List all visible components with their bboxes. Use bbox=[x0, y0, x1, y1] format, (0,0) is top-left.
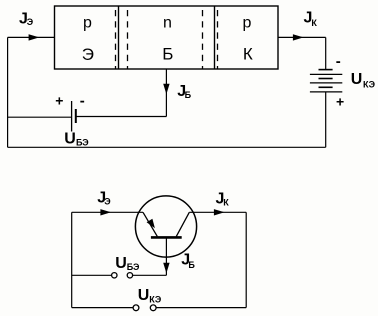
wire: base lead down bbox=[165, 238, 167, 275]
svg-text:БЭ: БЭ bbox=[76, 138, 89, 148]
svg-text:Б: Б bbox=[162, 45, 173, 64]
svg-text:Э: Э bbox=[27, 17, 34, 27]
svg-text:К: К bbox=[311, 18, 317, 28]
transistor Q1 symbol circle bbox=[135, 196, 196, 257]
wire: base to switch U_БЭ bbox=[133, 274, 167, 276]
wire: left rail to battery U_БЭ bbox=[8, 116, 72, 118]
wire: switch U_КЭ to right rail bbox=[156, 307, 246, 309]
arrow J_Э (bottom) bbox=[100, 209, 111, 215]
wire: left rail to switch U_БЭ bbox=[72, 274, 112, 276]
wire: left vertical rail (bottom diagram) bbox=[71, 212, 73, 307]
wire: base to battery U_БЭ bbox=[76, 116, 167, 118]
svg-text:Б: Б bbox=[185, 90, 192, 100]
junction J2 boundary (base-collector) bbox=[214, 6, 216, 69]
svg-text:+: + bbox=[336, 93, 344, 109]
wire: left vertical rail bbox=[7, 37, 9, 147]
wire: collector output horizontal bbox=[278, 36, 326, 38]
svg-text:Э: Э bbox=[82, 45, 94, 64]
wire: emitter input (bottom diagram) bbox=[72, 211, 143, 213]
svg-text:К: К bbox=[223, 197, 229, 207]
arrow J_Б (bottom) bbox=[163, 263, 169, 274]
svg-text:n: n bbox=[163, 14, 172, 31]
arrow J_К (bottom) bbox=[214, 209, 225, 215]
svg-text:Э: Э bbox=[104, 196, 111, 206]
svg-text:К: К bbox=[243, 45, 253, 64]
wire: bottom rail bbox=[8, 146, 326, 148]
transistor structure box Q1 (p-n-p regions) bbox=[55, 6, 279, 69]
svg-text:-: - bbox=[80, 93, 85, 110]
depletion edge dashed left of J2 bbox=[202, 10, 204, 69]
svg-text:-: - bbox=[336, 53, 341, 70]
switch terminal circle (U_КЭ right) bbox=[150, 305, 156, 311]
arrow J_Э current direction bbox=[29, 34, 40, 40]
emitter lead diagonal with arrow bbox=[143, 212, 157, 236]
arrow J_К current direction bbox=[293, 34, 304, 40]
switch terminal circle (U_БЭ left) bbox=[112, 273, 117, 278]
wire: collector output (bottom diagram) bbox=[189, 211, 246, 213]
depletion edge dashed right of J1 bbox=[127, 10, 129, 69]
collector lead diagonal bbox=[176, 212, 189, 236]
svg-text:U: U bbox=[115, 255, 127, 272]
arrow J_Б current direction bbox=[163, 84, 169, 95]
depletion edge dashed left of J1 bbox=[115, 10, 117, 69]
wire: emitter input horizontal bbox=[8, 36, 55, 38]
wire: battery U_КЭ to bottom rail bbox=[325, 92, 327, 147]
wire: left rail to switch U_КЭ bbox=[72, 307, 133, 309]
svg-text:КЭ: КЭ bbox=[149, 294, 162, 304]
wire: collector to battery bbox=[325, 37, 327, 69]
svg-text:Б: Б bbox=[188, 260, 195, 270]
svg-text:U: U bbox=[351, 71, 363, 88]
svg-text:U: U bbox=[64, 130, 76, 147]
battery U_БЭ bbox=[72, 101, 76, 132]
wire: right vertical rail (bottom diagram) bbox=[245, 212, 247, 307]
svg-text:БЭ: БЭ bbox=[127, 262, 140, 272]
junction J1 boundary (emitter-base) bbox=[118, 6, 120, 69]
wire: base lead vertical bbox=[165, 69, 167, 117]
svg-text:p: p bbox=[83, 15, 92, 32]
switch terminal circle (U_КЭ left) bbox=[133, 305, 139, 311]
svg-text:+: + bbox=[55, 92, 63, 108]
svg-text:p: p bbox=[243, 15, 252, 32]
svg-text:U: U bbox=[138, 287, 150, 304]
svg-text:КЭ: КЭ bbox=[363, 79, 376, 89]
switch terminal circle (U_БЭ right) bbox=[127, 273, 132, 278]
battery U_КЭ (3 cells) bbox=[310, 70, 342, 92]
base bar bbox=[151, 236, 182, 239]
depletion edge dashed right of J2 bbox=[217, 10, 219, 69]
